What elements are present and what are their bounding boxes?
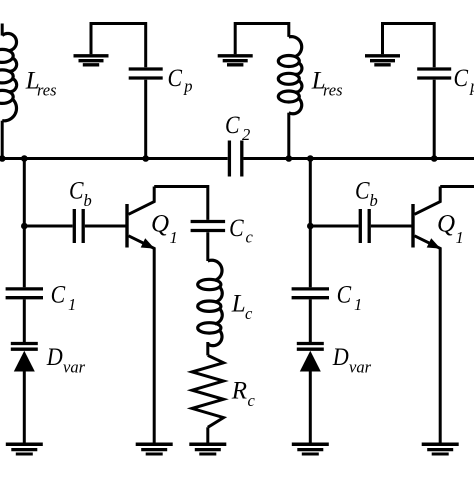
svg-text:res: res (37, 81, 57, 100)
svg-text:C: C (51, 281, 66, 308)
svg-text:b: b (370, 191, 378, 210)
svg-text:C: C (337, 281, 352, 308)
svg-text:p: p (469, 77, 474, 96)
svg-text:p: p (183, 77, 192, 96)
svg-text:C: C (355, 178, 370, 205)
svg-text:1: 1 (456, 228, 464, 247)
svg-text:1: 1 (354, 295, 362, 314)
svg-text:c: c (245, 304, 253, 323)
svg-text:b: b (84, 191, 92, 210)
svg-text:Q: Q (151, 211, 169, 238)
svg-text:1: 1 (68, 295, 76, 314)
svg-text:c: c (246, 227, 254, 246)
svg-text:Q: Q (437, 211, 455, 238)
svg-text:2: 2 (242, 125, 250, 144)
svg-text:D: D (332, 344, 349, 371)
svg-text:C: C (225, 112, 240, 139)
svg-text:C: C (168, 65, 183, 92)
svg-text:1: 1 (170, 228, 178, 247)
svg-text:D: D (46, 344, 63, 371)
svg-text:C: C (229, 215, 244, 242)
svg-text:C: C (454, 65, 469, 92)
svg-text:c: c (248, 391, 256, 410)
svg-text:L: L (231, 291, 246, 318)
svg-text:R: R (231, 377, 247, 404)
svg-text:res: res (323, 81, 343, 100)
svg-text:C: C (69, 178, 84, 205)
svg-text:var: var (63, 358, 86, 377)
svg-text:var: var (349, 358, 372, 377)
